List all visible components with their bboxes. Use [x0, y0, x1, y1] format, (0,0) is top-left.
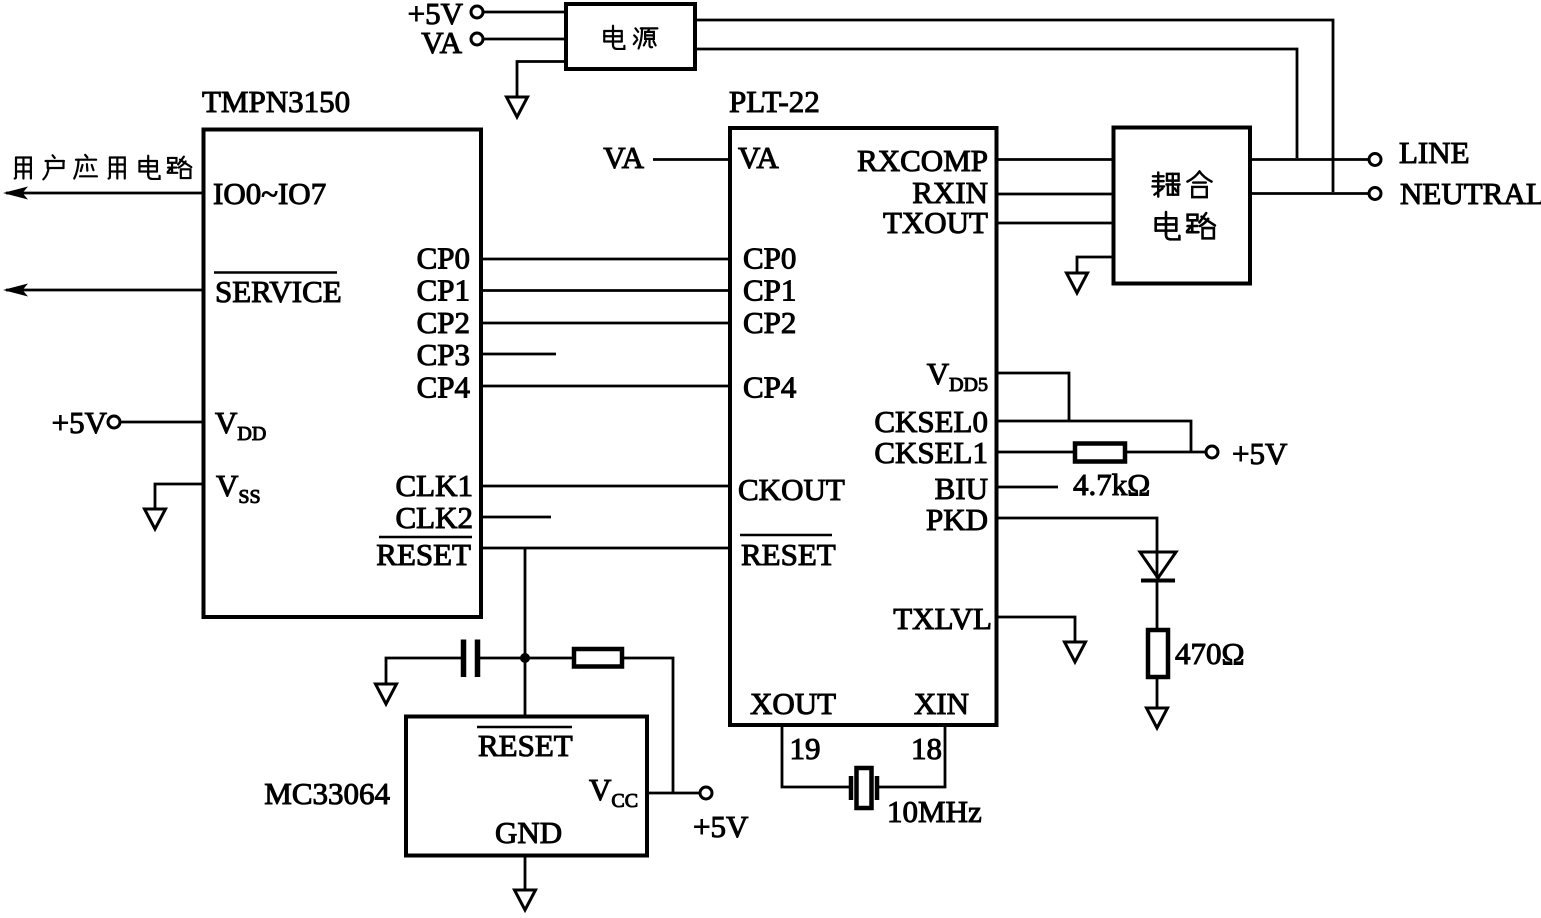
- svg-text:CP0: CP0: [743, 241, 796, 276]
- svg-text:NEUTRAL: NEUTRAL: [1400, 176, 1541, 211]
- svg-text:TXLVL: TXLVL: [893, 601, 992, 636]
- svg-text:RESET: RESET: [741, 537, 836, 572]
- svg-text:BIU: BIU: [935, 471, 988, 506]
- svg-text:VDD5: VDD5: [927, 356, 988, 396]
- svg-text:CP4: CP4: [743, 370, 797, 405]
- svg-text:+5V: +5V: [52, 405, 108, 440]
- svg-text:+5V: +5V: [693, 809, 749, 844]
- svg-text:XIN: XIN: [914, 686, 969, 721]
- svg-text:GND: GND: [495, 815, 562, 850]
- svg-text:CP4: CP4: [417, 370, 471, 405]
- svg-text:CKSEL0: CKSEL0: [874, 404, 988, 439]
- svg-text:VDD: VDD: [215, 405, 266, 445]
- svg-text:TMPN3150: TMPN3150: [202, 84, 350, 119]
- svg-text:IO0~IO7: IO0~IO7: [213, 176, 326, 211]
- svg-text:CKOUT: CKOUT: [738, 472, 845, 507]
- svg-text:10MHz: 10MHz: [887, 794, 982, 829]
- svg-text:CP3: CP3: [417, 337, 470, 372]
- svg-text:CP2: CP2: [743, 305, 796, 340]
- svg-text:CLK1: CLK1: [396, 468, 474, 503]
- svg-text:470Ω: 470Ω: [1175, 636, 1245, 671]
- svg-text:TXOUT: TXOUT: [883, 205, 988, 240]
- svg-text:18: 18: [911, 731, 942, 766]
- svg-text:CP1: CP1: [743, 273, 796, 308]
- svg-text:MC33064: MC33064: [264, 776, 390, 811]
- svg-text:RXCOMP: RXCOMP: [857, 143, 988, 178]
- svg-text:VA: VA: [603, 140, 644, 175]
- svg-text:CP0: CP0: [417, 241, 470, 276]
- svg-text:CLK2: CLK2: [396, 500, 474, 535]
- svg-text:RESET: RESET: [478, 728, 573, 763]
- svg-text:CP2: CP2: [417, 305, 470, 340]
- svg-text:VA: VA: [738, 140, 779, 175]
- svg-text:LINE: LINE: [1399, 135, 1470, 170]
- svg-text:CP1: CP1: [417, 273, 470, 308]
- svg-text:+5V: +5V: [1232, 436, 1288, 471]
- svg-text:VCC: VCC: [589, 772, 638, 812]
- svg-text:PKD: PKD: [926, 502, 988, 537]
- svg-text:SERVICE: SERVICE: [215, 274, 342, 309]
- svg-text:PLT-22: PLT-22: [729, 84, 820, 119]
- svg-text:4.7kΩ: 4.7kΩ: [1073, 467, 1150, 502]
- svg-text:VA: VA: [421, 25, 462, 60]
- svg-text:19: 19: [790, 731, 821, 766]
- svg-text:CKSEL1: CKSEL1: [874, 435, 988, 470]
- svg-text:RESET: RESET: [376, 537, 471, 572]
- svg-text:XOUT: XOUT: [750, 686, 836, 721]
- svg-text:VSS: VSS: [216, 468, 261, 508]
